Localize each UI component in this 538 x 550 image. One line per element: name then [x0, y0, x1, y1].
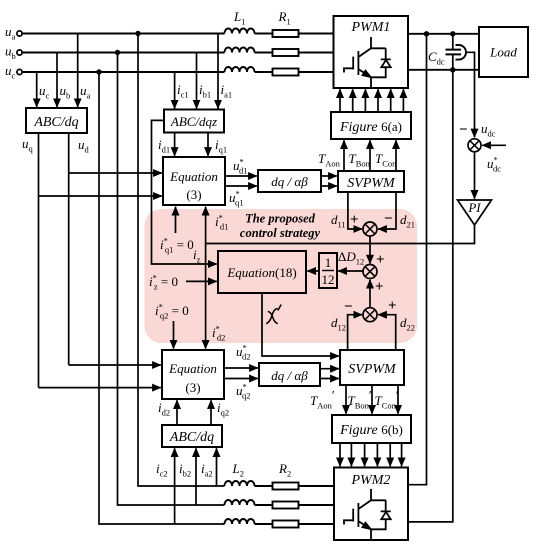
wire: T_Aon' SVPWM2 to Figure6(b)	[345, 385, 347, 414]
wire: gate signal 6	[402, 89, 404, 112]
svg-text:ua: ua	[5, 24, 16, 42]
svg-text:The proposed: The proposed	[245, 212, 316, 226]
wire: gate signal 3	[364, 443, 366, 466]
svg-text:Figure 6(a): Figure 6(a)	[339, 119, 402, 135]
svg-text:TAon: TAon	[318, 151, 341, 169]
svg-text:12: 12	[322, 272, 335, 287]
block PWM2	[334, 468, 408, 541]
wire: DC+ bus PWM1 to Load	[408, 33, 479, 35]
svg-text:Equation(18): Equation(18)	[226, 265, 296, 280]
svg-text:+: +	[388, 298, 397, 314]
svg-text:Equation: Equation	[169, 169, 218, 184]
wire: T_Bon' SVPWM2 to Figure6(b)	[371, 385, 373, 414]
wire: u_c tap to ABC/dq	[36, 72, 38, 107]
wire: dq/ab to SVPWM upper 2	[321, 185, 337, 187]
voltage sensor arc	[456, 45, 466, 60]
wire: phase b riser to lower converter	[118, 53, 225, 506]
svg-text:R2: R2	[278, 461, 291, 479]
wire: u*_dc reference into comparator	[482, 144, 506, 146]
IGBT with diode inside PWM1	[344, 37, 391, 88]
wire: T_Bon SVPWM to Figure6(a)	[369, 140, 371, 171]
block Figure 6(b)	[332, 415, 411, 443]
IGBT with diode inside PWM2	[344, 489, 391, 540]
svg-text:−: −	[384, 211, 393, 227]
wire: gate signal 4	[376, 443, 378, 466]
svg-text:+: +	[375, 279, 384, 295]
svg-text:ABC/dq: ABC/dq	[33, 115, 78, 130]
wire: dq/ab to SVPWM upper 1	[321, 175, 337, 177]
wire: u*_q2 Equation(3) to dq/ab lower	[224, 378, 258, 380]
wire: u_d into Equation(3) lower	[69, 364, 161, 366]
svg-text:PWM2: PWM2	[351, 473, 391, 488]
PI controller triangle	[458, 200, 492, 225]
wire: i_b2 tap to ABC/dq lower	[195, 448, 197, 505]
wire: i_d2 ABC/dq to Equation(3) lower	[176, 400, 178, 425]
svg-text:TBon: TBon	[349, 151, 371, 169]
wire: i*_z=0 into Equation(18)	[186, 280, 217, 282]
svg-text:ua: ua	[80, 83, 91, 101]
svg-text:TBon′: TBon′	[348, 388, 372, 411]
block Equation(3) upper	[163, 157, 225, 205]
wire: i_c2 tap to ABC/dq lower	[174, 448, 176, 524]
wire: gate signal 1 Figure6(a) to PWM1	[339, 89, 341, 112]
inductor L1 phase c	[225, 67, 255, 72]
svg-text:uc: uc	[39, 83, 50, 101]
svg-text:u*q2: u*q2	[236, 382, 251, 401]
svg-text:+: +	[350, 212, 359, 228]
svg-text:uc: uc	[5, 63, 16, 81]
inductor L2 phase a	[225, 481, 255, 486]
svg-text:Figure 6(b): Figure 6(b)	[339, 422, 403, 438]
svg-text:Load: Load	[489, 45, 517, 60]
wire: u_d from ABC/dq down	[68, 133, 70, 365]
wire: i_b1 tap to ABC/dqz	[196, 53, 198, 109]
multiplier circle 2 (DD12)	[363, 265, 377, 279]
svg-text:u*d1: u*d1	[233, 157, 248, 176]
wire: gate signal 1 Figure6(b) to PWM2	[339, 443, 341, 466]
wire: u_dc sense line down to comparator	[466, 52, 475, 137]
block PWM1	[334, 16, 409, 88]
resistor R2 phase b	[273, 502, 299, 509]
wire: u*_q1 Equation(3) to dq/ab	[225, 185, 257, 187]
block SVPWM upper	[338, 171, 404, 192]
svg-text:ia2: ia2	[201, 461, 213, 479]
block SVPWM lower	[340, 350, 404, 385]
wire: dq/ab lower to SVPWM2 input 1	[320, 368, 339, 370]
svg-text:ib2: ib2	[179, 461, 191, 479]
resistor R1 phase c	[273, 69, 299, 76]
junction: capacitor top	[450, 31, 455, 36]
svg-text:ic2: ic2	[156, 461, 168, 479]
wire: d21 from SVPWM to multiplier	[378, 192, 396, 229]
wire: PI output feedback to i*_d line	[206, 225, 475, 244]
multiplier circle 3 (d12 d22)	[363, 308, 377, 322]
wire: d12 from SVPWM2 to multiplier3	[348, 315, 362, 350]
wire: i_q2 ABC/dq to Equation(3) lower	[210, 400, 212, 425]
inductor L2 phase b	[225, 500, 255, 505]
svg-text:id1: id1	[158, 137, 170, 155]
block Load	[479, 27, 528, 77]
wire: phase c riser to lower converter	[99, 72, 225, 524]
block ABC/dqz	[164, 110, 224, 133]
wire: i_a2 tap to ABC/dq lower	[216, 448, 218, 486]
wire: grid bus phase c	[22, 71, 334, 73]
svg-text:(3): (3)	[186, 187, 201, 202]
svg-text:udc: udc	[481, 121, 496, 139]
svg-text:L2: L2	[232, 461, 244, 479]
wire: gate signal 4	[377, 89, 379, 112]
resistor R1 phase b	[273, 49, 299, 56]
svg-text:dq / αβ: dq / αβ	[271, 368, 308, 383]
wire: i_c1 tap to ABC/dqz	[174, 72, 176, 109]
svg-text:dq / αβ: dq / αβ	[271, 174, 308, 189]
svg-text:PI: PI	[467, 200, 481, 215]
inductor L2 phase c	[225, 519, 255, 524]
wire: i_d1 ABC/dqz to Equation(3)	[174, 132, 176, 156]
wire: multiplier1 output down	[369, 236, 371, 263]
svg-text:uq: uq	[22, 136, 34, 154]
svg-text:1: 1	[325, 255, 332, 270]
svg-text:−: −	[459, 122, 468, 138]
svg-text:iq2: iq2	[217, 400, 229, 418]
wire: d11 from SVPWM to multiplier	[348, 192, 362, 229]
wire: gate signal 2	[352, 89, 354, 112]
wire: grid bus phase a	[22, 33, 334, 35]
wire: 1/12 box to Equation(18)	[307, 270, 319, 272]
resistor R2 phase a	[273, 483, 299, 490]
label chi prime	[266, 305, 281, 324]
wire: u_q from ABC/dq down	[38, 133, 40, 388]
wire: i*_q1=0 into Equation(3)	[175, 207, 177, 233]
junction: phase b riser	[115, 50, 120, 55]
wire: multiplier3 output up to multiplier2	[369, 280, 371, 308]
wire: gate signal 3	[364, 89, 366, 112]
wire: lower bus phase c	[255, 523, 335, 525]
wire: lower bus phase b	[255, 504, 335, 506]
inductor L1 phase a	[225, 29, 255, 34]
svg-text:TCon′: TCon′	[375, 388, 399, 411]
wire: lower bus phase a	[255, 485, 335, 487]
svg-text:R1: R1	[278, 9, 291, 27]
multiplier circle 1 (d11 d21)	[363, 222, 377, 236]
svg-text:u*q1: u*q1	[229, 189, 244, 208]
wire: T_Con SVPWM to Figure6(a)	[395, 140, 397, 171]
wire: multiplier2 to 1/12 box	[338, 270, 363, 272]
junction: phase a riser	[135, 31, 140, 36]
wire: u*_d1 Equation(3) to dq/ab	[225, 175, 257, 177]
resistor R2 phase c	[273, 521, 299, 528]
block Figure 6(a)	[331, 112, 411, 139]
block 1/12 gain	[319, 253, 337, 288]
svg-text:ib1: ib1	[199, 82, 211, 100]
block dq/alphabeta lower	[259, 363, 320, 386]
svg-text:SVPWM: SVPWM	[347, 176, 396, 191]
svg-text:ia1: ia1	[221, 82, 233, 100]
highlighted region: proposed control strategy	[144, 209, 417, 343]
junction: DC+ riser	[424, 31, 429, 36]
source terminal circle u_a	[17, 31, 22, 36]
svg-text:iq1: iq1	[215, 137, 227, 155]
inductor L1 phase b	[225, 48, 255, 53]
svg-text:Equation: Equation	[168, 361, 217, 376]
resistor R1 phase a	[273, 30, 299, 37]
svg-text:ABC/dqz: ABC/dqz	[170, 114, 217, 129]
svg-text:TAon′: TAon′	[310, 388, 335, 411]
wire: i_a1 tap to ABC/dqz	[217, 34, 219, 109]
wire: DC- bus PWM1 to Load	[408, 69, 479, 71]
wire: T_Con' SVPWM2 to Figure6(b)	[397, 385, 399, 414]
wire: T_Aon SVPWM to Figure6(a)	[343, 140, 345, 171]
block Equation(3) lower	[162, 350, 224, 399]
wire: grid bus phase b	[22, 52, 334, 54]
wire: DC- riser to PWM2	[408, 34, 453, 522]
wire: u_b tap to ABC/dq	[56, 53, 58, 108]
svg-text:ub: ub	[60, 83, 71, 101]
svg-text:ud: ud	[78, 137, 90, 155]
block dq/alphabeta upper	[258, 170, 321, 192]
svg-text:Cdc: Cdc	[428, 49, 445, 67]
wire: dq/ab lower to SVPWM2 input 2	[320, 378, 339, 380]
wire: u_d branch into Equation(3) upper	[69, 172, 162, 174]
wire: i*_d2 down into Equation(3) lower	[205, 244, 207, 349]
source terminal circle u_c	[17, 69, 22, 74]
wire: u_a tap to ABC/dq	[77, 34, 79, 108]
svg-text:SVPWM: SVPWM	[348, 362, 397, 377]
wire: u_q into Equation(3) lower	[39, 387, 161, 389]
wire: i*_d1 up into Equation(3)	[205, 207, 207, 244]
svg-text:i*q1 = 0: i*q1 = 0	[160, 236, 194, 255]
block Equation(18)	[218, 251, 306, 293]
svg-text:−: −	[344, 299, 353, 315]
junction: phase c riser	[96, 69, 101, 74]
wire: DC+ riser to PWM2	[408, 34, 427, 485]
wire: d22 from SVPWM2 to multiplier3	[378, 315, 396, 350]
svg-text:+: +	[376, 252, 385, 268]
wire: gate signal 5	[389, 443, 391, 466]
wire: chi output Equation(18) to SVPWM2	[262, 293, 339, 356]
wire: i_q1 ABC/dqz to Equation(3)	[207, 132, 209, 156]
wire: u*_d2 Equation(3) to dq/ab lower	[224, 367, 258, 369]
svg-text:i*z = 0: i*z = 0	[149, 273, 178, 292]
wire: i_z from ABC/dqz to Equation(18)	[152, 120, 217, 264]
junction: capacitor bottom	[450, 67, 455, 72]
comparator circle u_dc	[468, 139, 481, 152]
svg-text:ABC/dq: ABC/dq	[169, 430, 214, 445]
svg-text:L1: L1	[233, 9, 245, 27]
svg-text:control strategy: control strategy	[240, 226, 321, 240]
svg-text:ic1: ic1	[177, 82, 189, 100]
source terminal circle u_b	[17, 50, 22, 55]
wire: comparator to PI	[474, 152, 476, 199]
svg-text:ub: ub	[5, 44, 16, 62]
wire: phase a riser to lower converter	[138, 34, 225, 487]
svg-text:(3): (3)	[185, 380, 200, 395]
svg-text:id2: id2	[158, 400, 170, 418]
wire: gate signal 2	[350, 443, 352, 466]
svg-text:TCon: TCon	[375, 151, 397, 169]
svg-text:PWM1: PWM1	[351, 20, 391, 35]
svg-text:u*dc: u*dc	[487, 155, 501, 174]
wire: i*_q2=0 into Equation(3) lower	[173, 321, 175, 349]
block ABC/dq upper	[26, 108, 87, 133]
block ABC/dq lower	[162, 425, 222, 447]
junction dots	[96, 31, 455, 75]
wire: gate signal 5	[390, 89, 392, 112]
capacitor C_dc	[446, 50, 462, 55]
wire: u_q branch into Equation(3) upper	[39, 195, 162, 197]
wire: gate signal 6	[401, 443, 403, 466]
svg-text:i*q2 = 0: i*q2 = 0	[155, 302, 189, 321]
svg-text:u*d2: u*d2	[236, 343, 251, 362]
